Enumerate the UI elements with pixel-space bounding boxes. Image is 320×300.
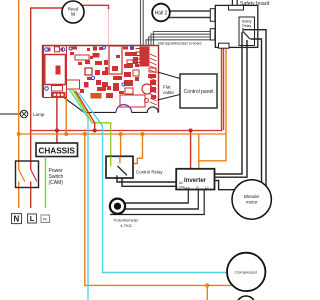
svg-text:PE: PE (43, 217, 47, 221)
svg-text:HI: HI (196, 186, 199, 190)
svg-text:Hall signal/impulses to board: Hall signal/impulses to board (158, 42, 201, 46)
svg-text:N: N (14, 215, 20, 224)
svg-text:Hall 2: Hall 2 (155, 10, 168, 16)
svg-text:LO: LO (205, 186, 208, 190)
svg-text:4.7ΚΩ: 4.7ΚΩ (120, 223, 131, 228)
svg-text:lid: lid (71, 12, 76, 17)
svg-text:Inverter: Inverter (184, 178, 207, 184)
svg-text:Safety board: Safety board (240, 1, 270, 7)
svg-text:L: L (30, 214, 35, 223)
svg-text:CHASSIS: CHASSIS (38, 146, 75, 155)
svg-text:Compressor: Compressor (235, 270, 257, 275)
svg-text:Safety: Safety (242, 20, 252, 24)
svg-text:Flat: Flat (163, 85, 171, 90)
svg-text:GND: GND (184, 186, 190, 190)
svg-text:Control panel: Control panel (184, 89, 214, 95)
svg-text:AC: AC (179, 181, 184, 185)
svg-text:Lamp: Lamp (33, 112, 45, 117)
svg-text:cable: cable (163, 90, 174, 95)
svg-text:(CAM): (CAM) (49, 180, 64, 186)
svg-text:Blender: Blender (244, 194, 260, 199)
svg-text:motor: motor (246, 200, 258, 205)
svg-text:Potentiometer: Potentiometer (114, 218, 140, 223)
svg-text:Relay: Relay (242, 24, 251, 28)
svg-text:Control Relay: Control Relay (136, 170, 163, 175)
